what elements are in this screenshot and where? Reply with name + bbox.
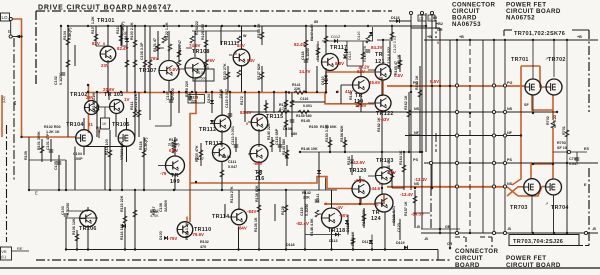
svg-text:R118: R118	[139, 141, 143, 150]
svg-text:TR112: TR112	[199, 127, 216, 133]
svg-text:TR106: TR106	[79, 226, 97, 232]
svg-text:R107 1.2K: R107 1.2K	[91, 16, 95, 34]
svg-text:+B: +B	[577, 35, 582, 39]
svg-text:1K: 1K	[102, 122, 107, 126]
svg-text:R703: R703	[557, 141, 566, 145]
svg-text:RE: RE	[17, 246, 23, 251]
svg-text:C113 0.001: C113 0.001	[231, 126, 235, 145]
svg-text:TR114: TR114	[212, 214, 229, 220]
svg-text:R106 12K: R106 12K	[72, 218, 76, 235]
svg-text:SF 10: SF 10	[557, 146, 567, 150]
svg-text:GR: GR	[437, 28, 443, 32]
svg-text:0: 0	[337, 90, 339, 94]
svg-text:R152 1K: R152 1K	[377, 117, 381, 132]
svg-text:NA06753: NA06753	[452, 21, 481, 28]
svg-text:0: 0	[379, 76, 381, 80]
svg-text:ES: ES	[584, 147, 589, 151]
svg-text:-B: -B	[592, 227, 596, 231]
svg-text:R126: R126	[169, 138, 178, 142]
svg-text:TR118: TR118	[328, 228, 345, 234]
svg-text:82V: 82V	[92, 41, 100, 46]
svg-text:R148 4.5K: R148 4.5K	[310, 218, 314, 236]
svg-text:-84.3V: -84.3V	[411, 212, 424, 217]
svg-text:-79.6V: -79.6V	[191, 232, 204, 237]
svg-text:IN: IN	[12, 101, 17, 105]
svg-text:0.1/250: 0.1/250	[306, 48, 310, 60]
svg-text:R172: R172	[240, 96, 244, 105]
svg-text:W: W	[243, 34, 247, 38]
svg-text:21: 21	[88, 122, 93, 127]
svg-text:TR702: TR702	[548, 57, 566, 63]
svg-text:VR101 22K: VR101 22K	[120, 141, 124, 160]
svg-text:R112 22K: R112 22K	[134, 93, 138, 110]
svg-text:LO: LO	[2, 15, 9, 20]
svg-text:DRIVE CIRCUIT BOARD NA06747: DRIVE CIRCUIT BOARD NA06747	[38, 5, 172, 12]
svg-text:PS: PS	[507, 158, 512, 162]
svg-text:D116: D116	[357, 31, 361, 40]
svg-text:↗: ↗	[545, 56, 548, 61]
svg-text:4.7K: 4.7K	[279, 107, 287, 111]
svg-text:NS: NS	[507, 182, 513, 186]
svg-text:CIRCUIT: CIRCUIT	[455, 255, 483, 262]
svg-text:R110: R110	[116, 25, 120, 34]
svg-text:R161: R161	[347, 156, 351, 165]
svg-text:D103: D103	[159, 231, 163, 240]
svg-text:0.1/250: 0.1/250	[305, 204, 309, 216]
svg-text:0: 0	[186, 218, 188, 222]
svg-text:R147 1.5K: R147 1.5K	[310, 23, 314, 41]
svg-text:0: 0	[148, 65, 150, 69]
svg-text:R159 10K: R159 10K	[363, 45, 367, 62]
svg-text:83.4V: 83.4V	[240, 110, 252, 115]
svg-text:R151 22: R151 22	[195, 21, 199, 35]
svg-text:R144 680: R144 680	[282, 139, 286, 155]
svg-text:C101 47P: C101 47P	[46, 133, 50, 150]
svg-text:TR105: TR105	[112, 122, 130, 128]
svg-text:D105: D105	[222, 155, 231, 159]
svg-text:-B: -B	[416, 225, 420, 229]
svg-text:0.047: 0.047	[228, 165, 237, 169]
svg-text:74.6V: 74.6V	[189, 43, 201, 48]
svg-text:20.6V: 20.6V	[103, 87, 115, 92]
svg-text:85: 85	[433, 16, 437, 20]
svg-text:-B: -B	[424, 237, 428, 241]
svg-text:TR104: TR104	[66, 122, 84, 128]
svg-text:PS: PS	[413, 158, 418, 162]
svg-text:(LO): (LO)	[2, 96, 6, 103]
svg-text:C123: C123	[397, 223, 401, 232]
svg-text:R155 1K: R155 1K	[257, 23, 261, 38]
svg-text:22K: 22K	[303, 196, 310, 200]
svg-text:C105: C105	[54, 161, 58, 170]
svg-text:0: 0	[235, 52, 237, 56]
svg-text:CIRCUIT BOARD: CIRCUIT BOARD	[506, 262, 561, 269]
svg-text:1.2K 1K: 1.2K 1K	[46, 130, 60, 134]
svg-text:84V: 84V	[237, 43, 245, 48]
svg-text:D117: D117	[362, 240, 371, 244]
svg-text:R123 47: R123 47	[178, 40, 182, 54]
svg-text:23V: 23V	[101, 63, 109, 68]
svg-text:D118: D118	[391, 16, 400, 20]
svg-text:GB: GB	[445, 225, 451, 229]
svg-text:R701: R701	[562, 126, 566, 135]
svg-text:TR701,702:2SK76: TR701,702:2SK76	[514, 31, 565, 37]
svg-text:VR: VR	[1, 250, 7, 254]
svg-text:-85V: -85V	[253, 161, 262, 166]
svg-text:R115 22K: R115 22K	[120, 195, 124, 212]
svg-text:C115 0.047: C115 0.047	[225, 89, 229, 108]
svg-text:14.2V: 14.2V	[358, 65, 370, 70]
svg-text:TR111: TR111	[220, 41, 237, 47]
svg-text:124: 124	[371, 216, 381, 222]
svg-text:+B2: +B2	[436, 22, 443, 26]
svg-text:E: E	[35, 191, 38, 196]
svg-text:D107: D107	[195, 157, 204, 161]
svg-text:D108: D108	[283, 127, 292, 131]
svg-text:0: 0	[256, 117, 258, 121]
svg-text:R101 390K: R101 390K	[37, 131, 41, 150]
svg-text:C121 0.01: C121 0.01	[392, 206, 396, 223]
svg-text:CONNECTOR: CONNECTOR	[455, 248, 498, 255]
svg-text:12.8V: 12.8V	[355, 103, 367, 108]
svg-text:D113: D113	[329, 239, 338, 243]
svg-text:C124 0.022: C124 0.022	[387, 47, 391, 66]
svg-text:TR113: TR113	[205, 141, 222, 147]
svg-text:680: 680	[291, 132, 297, 136]
svg-text:D106: D106	[219, 89, 223, 98]
svg-text:NF: NF	[414, 131, 420, 135]
svg-text:22K(F): 22K(F)	[168, 143, 180, 147]
svg-text:TR: TR	[375, 52, 383, 58]
svg-text:(L): (L)	[1, 255, 6, 259]
svg-text:R108 1.2K: R108 1.2K	[92, 92, 96, 110]
svg-text:C116 68P: C116 68P	[275, 128, 279, 145]
svg-text:-12.5V: -12.5V	[352, 160, 365, 165]
svg-text:D112: D112	[331, 34, 341, 39]
svg-text:0.1/250: 0.1/250	[66, 203, 70, 215]
svg-text:D115: D115	[346, 223, 350, 232]
svg-text:-B: -B	[507, 227, 511, 231]
svg-text:R165 47: R165 47	[394, 61, 398, 75]
svg-text:0.6V: 0.6V	[169, 67, 178, 72]
svg-text:NA06752: NA06752	[506, 15, 535, 22]
svg-text:D104: D104	[207, 93, 211, 103]
svg-text:PG: PG	[507, 81, 512, 85]
svg-text:C107: C107	[166, 91, 170, 100]
svg-text:C103: C103	[61, 206, 65, 215]
svg-text:0: 0	[172, 149, 174, 153]
svg-text:R134 27K: R134 27K	[230, 186, 234, 203]
svg-text:TR703,704:2SJ26: TR703,704:2SJ26	[513, 239, 563, 245]
svg-text:-53V: -53V	[380, 117, 389, 122]
svg-text:82V: 82V	[357, 69, 365, 74]
svg-text:R105: R105	[24, 151, 28, 160]
svg-text:BOARD: BOARD	[455, 262, 480, 269]
svg-text:D118: D118	[286, 243, 295, 247]
svg-text:R158 82K: R158 82K	[340, 125, 344, 142]
svg-text:45.6V: 45.6V	[369, 80, 381, 85]
svg-text:84.3V: 84.3V	[371, 45, 383, 50]
svg-text:D111: D111	[316, 194, 320, 202]
svg-text:100P: 100P	[74, 157, 83, 161]
svg-text:+B: +B	[427, 35, 432, 39]
svg-text:R150: R150	[309, 125, 318, 129]
svg-text:C116: C116	[300, 97, 308, 101]
svg-text:-79: -79	[160, 171, 167, 176]
svg-text:14.2V: 14.2V	[299, 69, 311, 74]
svg-text:0: 0	[437, 41, 439, 45]
svg-text:0: 0	[325, 202, 327, 206]
svg-text:SF: SF	[524, 103, 529, 107]
svg-text:NS: NS	[507, 107, 513, 111]
svg-text:-4V: -4V	[336, 205, 343, 210]
svg-text:121: 121	[375, 59, 385, 65]
svg-text:TR 103: TR 103	[104, 92, 123, 98]
svg-text:C106 3.3P: C106 3.3P	[140, 42, 144, 60]
svg-text:C119: C119	[300, 207, 304, 216]
svg-text:R145 680: R145 680	[296, 114, 312, 118]
svg-text:TR123: TR123	[376, 158, 394, 164]
svg-text:-82.4V: -82.4V	[296, 221, 309, 226]
svg-text:R154 60K: R154 60K	[320, 125, 337, 129]
svg-text:3A/500: 3A/500	[164, 200, 168, 212]
svg-text:R157 1K: R157 1K	[404, 201, 408, 216]
svg-text:D101: D101	[124, 31, 128, 40]
svg-text:220: 220	[191, 99, 197, 103]
svg-text:TR120: TR120	[349, 168, 367, 174]
svg-text:116: 116	[255, 176, 265, 182]
svg-text:R702: R702	[546, 116, 550, 125]
svg-text:SP 0.22: SP 0.22	[553, 115, 557, 128]
svg-text:R117: R117	[150, 209, 159, 213]
svg-text:C120 0.01: C120 0.01	[393, 36, 397, 53]
svg-text:R142: R142	[302, 191, 311, 195]
svg-text:470: 470	[200, 245, 206, 249]
svg-text:R122 1.2K: R122 1.2K	[165, 22, 169, 40]
svg-text:NS: NS	[414, 182, 420, 186]
svg-text:R141: R141	[349, 91, 353, 100]
svg-text:NF: NF	[507, 131, 513, 135]
svg-text:TR703: TR703	[510, 205, 528, 211]
svg-text:R102 R03: R102 R03	[44, 125, 61, 129]
svg-text:3.3K(F): 3.3K(F)	[144, 137, 148, 150]
svg-text:R145: R145	[301, 119, 310, 123]
svg-text:-60V: -60V	[339, 213, 348, 218]
svg-text:R140 22K: R140 22K	[267, 123, 271, 140]
svg-text:0.047: 0.047	[569, 162, 578, 166]
svg-text:-84V: -84V	[238, 226, 247, 231]
svg-text:R138 82K: R138 82K	[255, 185, 259, 202]
svg-text:0: 0	[246, 122, 248, 126]
svg-text:CR: CR	[447, 242, 453, 246]
svg-text:R121 47: R121 47	[153, 38, 157, 52]
svg-text:470K: 470K	[150, 214, 159, 218]
svg-text:R132: R132	[200, 240, 209, 244]
svg-text:R109 1.2K: R109 1.2K	[185, 222, 189, 240]
svg-text:8.5V: 8.5V	[430, 79, 439, 84]
svg-text:R137 82K: R137 82K	[257, 63, 261, 80]
svg-text:C118: C118	[301, 51, 305, 60]
svg-text:0.1/250: 0.1/250	[59, 73, 63, 85]
svg-text:109: 109	[170, 179, 180, 185]
svg-text:C111: C111	[228, 160, 236, 164]
svg-text:R100 2.2K: R100 2.2K	[130, 22, 134, 40]
svg-text:-75V: -75V	[168, 236, 177, 241]
svg-text:R128: R128	[281, 206, 285, 215]
svg-text:8.8V: 8.8V	[335, 61, 344, 66]
svg-text:5P/500: 5P/500	[195, 77, 207, 81]
svg-text:R113 100: R113 100	[105, 139, 109, 155]
svg-text:85: 85	[314, 20, 318, 24]
svg-text:L: L	[430, 17, 432, 21]
svg-text:-84V: -84V	[247, 209, 256, 214]
svg-text:7.5K(F): 7.5K(F)	[68, 27, 72, 40]
svg-text:D114: D114	[348, 51, 352, 60]
svg-text:-44.6: -44.6	[370, 186, 381, 191]
svg-text:R149 470: R149 470	[316, 44, 320, 60]
svg-text:22K: 22K	[294, 87, 301, 91]
svg-text:R136 1K: R136 1K	[254, 217, 258, 232]
svg-text:PG: PG	[413, 81, 418, 85]
svg-text:R162 1K: R162 1K	[404, 95, 408, 110]
svg-text:R166 4.7: R166 4.7	[387, 159, 391, 174]
svg-text:76V: 76V	[151, 56, 159, 61]
svg-text:TR108: TR108	[192, 49, 210, 55]
svg-text:C108: C108	[159, 203, 163, 212]
svg-text:C102: C102	[54, 76, 58, 85]
svg-text:TR701: TR701	[511, 57, 529, 63]
svg-text:NS: NS	[414, 107, 420, 111]
svg-text:R104: R104	[63, 30, 67, 40]
svg-text:1V: 1V	[124, 97, 129, 102]
svg-text:R164 1K: R164 1K	[399, 150, 403, 165]
svg-text:↗: ↗	[545, 201, 548, 206]
svg-text:IN: IN	[96, 126, 100, 130]
svg-text:R125 150: R125 150	[201, 24, 205, 40]
svg-text:TR101: TR101	[97, 18, 115, 24]
svg-text:0.001: 0.001	[303, 104, 312, 108]
svg-text:82.4V: 82.4V	[117, 46, 129, 51]
svg-text:+B: +B	[459, 35, 464, 39]
svg-text:C109: C109	[196, 71, 205, 75]
svg-text:82.4V: 82.4V	[294, 42, 306, 47]
svg-text:R116 18K: R116 18K	[120, 223, 124, 240]
svg-text:0: 0	[379, 109, 381, 113]
svg-text:TR704: TR704	[551, 205, 569, 211]
svg-text:0: 0	[379, 182, 381, 186]
svg-text:0: 0	[103, 42, 105, 46]
svg-text:-4.4V: -4.4V	[354, 178, 365, 183]
svg-text:84V: 84V	[247, 58, 255, 63]
svg-text:R146 10K: R146 10K	[301, 147, 318, 151]
svg-text:76V: 76V	[207, 58, 215, 63]
svg-text:6P/500: 6P/500	[171, 88, 175, 100]
svg-text:R133 27K: R133 27K	[223, 63, 227, 80]
svg-text:POWER FET: POWER FET	[506, 255, 546, 262]
svg-text:C701: C701	[569, 157, 578, 161]
svg-text:C104: C104	[73, 152, 83, 156]
svg-text:-13.4V: -13.4V	[400, 192, 413, 197]
svg-text:D119: D119	[396, 241, 405, 245]
svg-text:TR115: TR115	[266, 114, 283, 120]
